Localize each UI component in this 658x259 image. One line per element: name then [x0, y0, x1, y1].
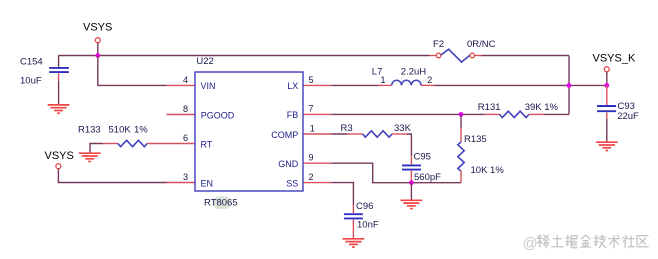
wire C154 top — [58, 56, 60, 67]
capacitor C96 — [344, 201, 379, 239]
pin 6 stub (RT) — [167, 143, 196, 145]
wire COMP to R3 — [332, 133, 348, 135]
svg-text:3: 3 — [183, 172, 188, 182]
resistor R133 — [78, 125, 167, 147]
svg-text:1%: 1% — [134, 125, 148, 136]
svg-text:39K 1%: 39K 1% — [525, 102, 559, 113]
svg-text:C95: C95 — [414, 152, 431, 163]
junction FB / R135 — [459, 112, 464, 117]
fuse F2 0R/NC — [433, 39, 496, 62]
svg-text:@: @ — [523, 235, 538, 252]
IC U22 RT8065 regulator body — [195, 72, 303, 191]
wire VSYS to EN pin 3 — [58, 169, 166, 183]
junction C95 / ground rail — [409, 180, 414, 185]
resistor R135 — [458, 114, 505, 182]
pin 4 stub (VIN) — [167, 84, 196, 86]
RT8065 value label — [204, 196, 238, 209]
svg-text:1: 1 — [381, 75, 386, 85]
ground (C95) — [401, 200, 423, 208]
wire FB rail — [332, 113, 485, 115]
svg-text:R135: R135 — [464, 134, 487, 145]
wire LX to inductor — [332, 84, 379, 86]
svg-text:10K 1%: 10K 1% — [471, 165, 505, 176]
wire F2 to right column — [475, 55, 482, 57]
svg-text:33K: 33K — [394, 123, 412, 134]
svg-text:9: 9 — [309, 153, 314, 163]
node VSYS (left power terminal) — [45, 150, 74, 169]
wire ground stem (C95) — [410, 183, 412, 200]
svg-text:PGOOD: PGOOD — [201, 110, 235, 120]
junction LX rail / right column — [567, 83, 572, 88]
pin 1 stub (COMP) — [303, 133, 332, 135]
wire main VSYS rail (C154 to F2) — [59, 55, 430, 57]
ground (C93) — [596, 142, 618, 150]
svg-text:8: 8 — [183, 104, 188, 114]
capacitor C154 — [20, 57, 69, 87]
pin 3 stub (EN) — [167, 182, 196, 184]
junction VSYS_K column — [604, 83, 609, 88]
node VSYS_K terminal — [593, 52, 636, 72]
svg-text:VSYS: VSYS — [83, 21, 112, 33]
svg-text:R133: R133 — [78, 125, 101, 136]
ground (C154) — [48, 105, 70, 113]
svg-text:VIN: VIN — [201, 81, 216, 91]
wire inductor to VSYS_K column — [435, 84, 607, 86]
wire VSYS_K column to C93 — [606, 85, 608, 105]
svg-text:EN: EN — [201, 178, 214, 188]
wire R131 to right column — [544, 113, 569, 115]
svg-text:LX: LX — [287, 81, 298, 91]
svg-text:RT8065: RT8065 — [204, 198, 238, 209]
svg-text:6: 6 — [183, 133, 188, 143]
wire VIN feed (junction down and to pin 4) — [98, 56, 167, 86]
pin 5 stub (LX) — [303, 84, 332, 86]
wire SS to C96 — [332, 183, 354, 205]
node VSYS (top power terminal) — [83, 21, 112, 42]
svg-text:560pF: 560pF — [414, 172, 441, 183]
svg-text:SS: SS — [286, 178, 298, 188]
pin 7 stub (FB) — [303, 113, 332, 115]
capacitor C95 — [402, 152, 441, 183]
capacitor C93 — [597, 101, 639, 122]
svg-text:4: 4 — [183, 75, 188, 85]
ground (R133 / RT) — [79, 153, 101, 161]
wire R3 to C95 — [407, 134, 411, 156]
svg-text:510K: 510K — [109, 125, 132, 136]
svg-text:2.2uH: 2.2uH — [401, 67, 426, 78]
svg-text:GND: GND — [278, 159, 299, 169]
svg-text:10uF: 10uF — [20, 76, 42, 87]
wire R133 to ground — [90, 144, 103, 153]
svg-text:R3: R3 — [341, 123, 353, 134]
svg-text:2: 2 — [427, 75, 432, 85]
svg-text:10nF: 10nF — [357, 219, 379, 230]
junction VSYS rail — [95, 53, 100, 58]
svg-text:VSYS_K: VSYS_K — [593, 52, 636, 64]
wire C154 to ground — [58, 81, 60, 105]
wire right column vertical — [568, 56, 570, 115]
svg-text:VSYS: VSYS — [45, 150, 74, 162]
svg-text:R131: R131 — [478, 102, 501, 113]
wire GND pin path — [332, 163, 462, 183]
svg-text:U22: U22 — [196, 56, 213, 67]
pin 2 stub (SS) — [303, 182, 332, 184]
resistor R131 — [478, 102, 559, 118]
pin 9 stub (GND) — [303, 162, 332, 164]
svg-text:0R/NC: 0R/NC — [467, 39, 496, 50]
svg-text:1: 1 — [310, 123, 315, 133]
svg-text:C154: C154 — [20, 57, 43, 68]
wire VSYS terminal to main rail — [97, 43, 99, 56]
wire C93 to ground — [606, 119, 608, 142]
svg-text:2: 2 — [309, 172, 314, 182]
ground (C96) — [343, 239, 365, 247]
svg-text:F2: F2 — [433, 39, 444, 50]
svg-text:FB: FB — [287, 110, 299, 120]
svg-text:C96: C96 — [356, 201, 373, 212]
inductor L7 2.2uH — [372, 67, 435, 86]
watermark — [523, 235, 649, 252]
svg-text:22uF: 22uF — [617, 111, 639, 122]
resistor R3 — [341, 123, 412, 137]
wire VSYS_K terminal down — [606, 72, 608, 86]
svg-text:7: 7 — [309, 104, 314, 114]
svg-text:COMP: COMP — [271, 130, 298, 140]
svg-text:RT: RT — [201, 139, 213, 149]
svg-text:5: 5 — [309, 75, 314, 85]
pin 8 stub (PGOOD, unconnected) — [167, 114, 196, 116]
